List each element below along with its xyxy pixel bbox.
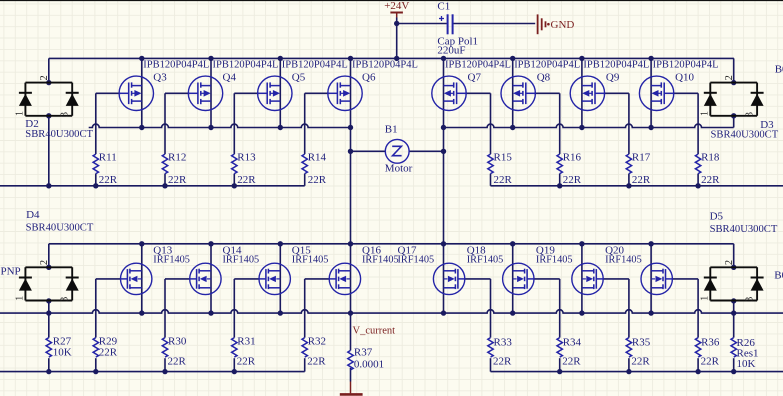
wire: C1 right plate to GND [453, 23, 535, 25]
pin numbers D3 [699, 75, 755, 117]
svg-text:IRF1405: IRF1405 [223, 255, 260, 266]
svg-text:Q3: Q3 [153, 71, 167, 83]
net label B0 (bottom right, cut) [774, 270, 783, 282]
svg-text:22R: 22R [701, 174, 720, 186]
wire: D4 bottom to source rail [48, 301, 50, 313]
svg-text:3: 3 [744, 297, 755, 302]
wire: Q4 drain-source vertical [210, 58, 212, 127]
svg-text:+24V: +24V [384, 0, 409, 12]
junction dots: bottom rails [46, 369, 736, 374]
net label B0 (top right, cut) [775, 64, 783, 76]
svg-text:SBR40U300CT: SBR40U300CT [26, 223, 94, 234]
net label V_current [353, 326, 396, 337]
junction dots: mid rails [46, 183, 701, 188]
svg-text:D5: D5 [710, 211, 724, 223]
wire: bottom-right rail [491, 371, 783, 373]
wire: Q19 gate to R35 [603, 279, 629, 372]
svg-text:IPB120P04P4L: IPB120P04P4L [653, 60, 719, 71]
svg-text:2: 2 [39, 260, 50, 265]
junction dots: D3 pins [731, 80, 736, 119]
svg-text:R13: R13 [237, 152, 256, 164]
svg-text:IPB120P04P4L: IPB120P04P4L [143, 60, 209, 71]
svg-text:R16: R16 [563, 152, 582, 164]
junction dots: D5 pins [731, 265, 736, 304]
wire: D3 bottom to source rail [733, 116, 735, 128]
resistor R18 22R [695, 152, 720, 187]
net label PNP (left edge, cut) [1, 266, 21, 278]
svg-text:22R: 22R [168, 355, 187, 367]
diode D5 SBR40U300CT (dual diode bridge) [704, 211, 778, 301]
diode D3 SBR40U300CT (dual diode bridge) [704, 83, 779, 141]
svg-text:22R: 22R [308, 174, 327, 186]
svg-text:V_current: V_current [353, 326, 396, 337]
wire: Q7 gate to R15 [465, 93, 491, 186]
svg-text:IPB120P04P4L: IPB120P04P4L [282, 60, 348, 71]
svg-text:IRF1405: IRF1405 [398, 255, 435, 266]
wire: R37 / V_current vertical [350, 313, 352, 381]
svg-text:B0: B0 [775, 64, 783, 76]
wire: Q20 drain-source vertical [650, 244, 652, 313]
wire: +24V to C1 left plate [397, 23, 447, 25]
svg-text:Q10: Q10 [675, 71, 694, 83]
wire: D3 pin2 stub [733, 58, 735, 82]
wire: D4 pin2 stub [48, 244, 50, 267]
wire: Q15 gate to R31 [234, 279, 259, 372]
pin numbers D5 [699, 260, 755, 302]
svg-text:22R: 22R [307, 355, 326, 367]
svg-text:Motor: Motor [385, 163, 413, 175]
resistor R37 0.0001 shunt [348, 346, 384, 370]
transistor Q18 IRF1405 (mirrored) [467, 245, 534, 295]
wire: bottom source rail [0, 310, 783, 313]
svg-text:R36: R36 [701, 337, 720, 349]
svg-text:IRF1405: IRF1405 [536, 255, 573, 266]
svg-text:R34: R34 [563, 337, 582, 349]
svg-text:B1: B1 [385, 124, 398, 136]
svg-text:22R: 22R [99, 174, 118, 186]
svg-text:B0: B0 [774, 270, 783, 282]
svg-text:IPB120P04P4L: IPB120P04P4L [445, 60, 511, 71]
svg-text:22R: 22R [237, 174, 256, 186]
svg-text:22R: 22R [494, 174, 513, 186]
svg-text:R12: R12 [168, 152, 186, 164]
transistor Q10 IPB120P04P4L (mirrored) [639, 60, 718, 111]
svg-text:SBR40U300CT: SBR40U300CT [711, 130, 779, 141]
svg-text:IPB120P04P4L: IPB120P04P4L [583, 60, 649, 71]
svg-text:Q5: Q5 [292, 71, 306, 83]
wire: top-right source rail [444, 124, 734, 127]
svg-text:R35: R35 [632, 337, 651, 349]
svg-text:0.0001: 0.0001 [354, 358, 384, 370]
svg-text:R14: R14 [308, 152, 327, 164]
resistor R14 22R [302, 152, 327, 187]
svg-text:Q8: Q8 [537, 71, 551, 83]
svg-text:IPB120P04P4L: IPB120P04P4L [514, 60, 580, 71]
svg-text:22R: 22R [99, 347, 118, 359]
svg-text:D4: D4 [26, 209, 40, 221]
junction dots: drain rail [139, 241, 654, 246]
wire: R27 vertical [48, 313, 50, 372]
power port +24V [384, 0, 409, 17]
svg-text:10K: 10K [53, 347, 72, 359]
junction dots: top source rails [139, 125, 654, 130]
transistor Q13 IRF1405 [121, 245, 190, 295]
resistor R36 22R [695, 337, 720, 368]
wire: motor right stub [409, 150, 443, 152]
svg-text:22R: 22R [168, 174, 187, 186]
wire: Q17 gate to R33 [465, 279, 491, 372]
wire: Q4 gate to R12 [165, 93, 190, 186]
transistor Q4 IPB120P04P4L [188, 60, 279, 111]
resistor R30 22R [162, 336, 187, 368]
svg-text:1: 1 [15, 111, 26, 116]
resistor R35 22R [626, 337, 651, 368]
transistor Q15 IRF1405 [259, 245, 328, 295]
svg-text:IRF1405: IRF1405 [605, 255, 642, 266]
wire: Q6 drain-source vertical [350, 58, 352, 313]
wire: Q9 drain-source vertical [581, 58, 583, 127]
transistor Q7 IPB120P04P4L (mirrored) [432, 60, 511, 111]
svg-text:3: 3 [60, 112, 71, 117]
wire: +24V top rail [49, 57, 734, 59]
resistor R11 22R [93, 152, 118, 187]
resistor R31 22R [232, 336, 256, 368]
wire: +24V vertical [396, 17, 398, 58]
wire: motor left stub [351, 150, 386, 152]
diode D2 SBR40U300CT (dual diode bridge) [19, 83, 94, 140]
wire: Q18 gate to R34 [534, 279, 560, 372]
svg-text:PNP: PNP [1, 266, 21, 278]
wire: Q3 gate to R11 [96, 93, 121, 186]
wire: Q6 gate to R14 [305, 93, 330, 186]
svg-text:R30: R30 [168, 336, 187, 348]
wire: mid-left rail [0, 185, 305, 187]
svg-text:R32: R32 [308, 336, 326, 348]
resistor R13 22R [232, 152, 257, 187]
svg-text:SBR40U300CT: SBR40U300CT [25, 129, 93, 140]
svg-text:22R: 22R [493, 355, 512, 367]
svg-text:Q7: Q7 [468, 71, 482, 83]
junction dots: bottom source rail [46, 310, 736, 315]
wire: Q14 drain-source vertical [210, 244, 212, 313]
svg-text:IRF1405: IRF1405 [362, 255, 399, 266]
resistor R34 22R [557, 337, 582, 368]
wire: Q8 gate to R16 [534, 93, 560, 186]
transistor Q3 IPB120P04P4L [119, 60, 210, 111]
wire: Q16 gate to R32 [305, 279, 330, 372]
svg-text:R17: R17 [632, 152, 651, 164]
transistor Q17 IRF1405 (mirrored) [398, 245, 465, 295]
transistor Q20 IRF1405 (mirrored) [605, 245, 672, 295]
svg-text:22R: 22R [631, 355, 650, 367]
svg-text:C1: C1 [437, 1, 450, 13]
svg-text:1: 1 [699, 296, 710, 301]
resistor R33 22R [488, 337, 513, 368]
wire: Q15 drain-source vertical [279, 244, 281, 313]
svg-text:R15: R15 [494, 152, 513, 164]
motor B1 [385, 124, 413, 175]
wire: mid-right rail [491, 185, 783, 187]
wire: Q10 drain-source vertical [650, 58, 652, 127]
wire: Q5 drain-source vertical [279, 58, 281, 127]
wire: R26 vertical [733, 313, 735, 372]
svg-text:22R: 22R [632, 174, 651, 186]
resistor R32 22R [302, 336, 326, 368]
pin numbers D2 [15, 75, 71, 117]
diode D4 SBR40U300CT (dual diode bridge) [19, 209, 94, 300]
capacitor C1 Cap Pol1 220uF [437, 1, 478, 57]
wire: Q3 drain-source vertical [141, 58, 143, 127]
pin numbers D4 [15, 260, 71, 302]
transistor Q9 IPB120P04P4L (mirrored) [570, 60, 649, 111]
resistor R16 22R [557, 152, 582, 187]
resistor R27 10K [46, 336, 72, 359]
resistor R29 22R [93, 336, 118, 359]
svg-text:3: 3 [60, 297, 71, 302]
wire: Q18 drain-source vertical [512, 244, 514, 313]
wire: Q8 drain-source vertical [512, 58, 514, 127]
wire: Q14 gate to R30 [165, 279, 190, 372]
wire: D2 bottom vertical to mid rail [48, 116, 50, 186]
svg-text:R37: R37 [354, 346, 373, 358]
junction dots: D4 pins [46, 265, 51, 304]
transistor Q8 IPB120P04P4L (mirrored) [501, 60, 580, 111]
svg-text:IRF1405: IRF1405 [292, 255, 329, 266]
transistor Q16 IRF1405 [329, 245, 398, 295]
svg-text:Q4: Q4 [223, 71, 237, 83]
resistor R12 22R [162, 152, 187, 187]
transistor Q6 IPB120P04P4L [327, 60, 418, 111]
junction dots: top rail [139, 56, 654, 61]
transistor Q5 IPB120P04P4L [257, 60, 348, 111]
svg-text:Q6: Q6 [362, 71, 376, 83]
svg-text:22R: 22R [562, 355, 581, 367]
svg-text:R18: R18 [701, 152, 720, 164]
svg-text:IRF1405: IRF1405 [467, 255, 504, 266]
wire: D5 pin2 stub [733, 244, 735, 267]
svg-text:22R: 22R [701, 355, 720, 367]
wire: Q19 drain-source vertical [581, 244, 583, 313]
svg-text:220uF: 220uF [437, 45, 465, 57]
wire: Q10 gate to R18 [672, 93, 698, 186]
wire: bottom drain rail [49, 243, 734, 245]
svg-text:22R: 22R [237, 355, 256, 367]
svg-text:R33: R33 [494, 337, 513, 349]
wire: Q5 gate to R13 [234, 93, 259, 186]
wire: D2 pin2 stub [48, 58, 50, 82]
svg-text:1: 1 [699, 111, 710, 116]
svg-text:R31: R31 [237, 336, 255, 348]
svg-text:3: 3 [744, 112, 755, 117]
svg-text:IPB120P04P4L: IPB120P04P4L [352, 60, 418, 71]
svg-text:2: 2 [39, 75, 50, 80]
wire: Q7 drain-source vertical [443, 58, 445, 313]
wire: top-left source rail [89, 124, 351, 127]
resistor R17 22R [626, 152, 651, 187]
resistor R26 Res1 10K [731, 337, 759, 370]
wire: D5 bottom to source rail [733, 301, 735, 313]
junction dot: +24V node [394, 21, 399, 26]
svg-text:2: 2 [724, 260, 735, 265]
junction dots: motor terminals [348, 149, 446, 154]
svg-text:Q9: Q9 [606, 71, 620, 83]
svg-text:22R: 22R [563, 174, 582, 186]
wire: Q13 gate to R29 [96, 279, 121, 372]
svg-text:2: 2 [724, 75, 735, 80]
svg-text:10K: 10K [737, 358, 756, 370]
resistor R15 22R [488, 152, 513, 187]
wire: Q9 gate to R17 [603, 93, 629, 186]
junction dots: D2 pins [46, 80, 51, 119]
svg-text:GND: GND [551, 19, 575, 31]
svg-text:IRF1405: IRF1405 [153, 255, 190, 266]
wire: Q13 drain-source vertical [141, 244, 143, 313]
svg-text:1: 1 [15, 296, 26, 301]
transistor Q14 IRF1405 [190, 245, 259, 295]
transistor Q19 IRF1405 (mirrored) [536, 245, 603, 295]
power ground GND [538, 14, 575, 34]
svg-text:R11: R11 [99, 152, 117, 164]
power port at bottom of R37 (cut) [340, 382, 363, 395]
svg-text:IPB120P04P4L: IPB120P04P4L [213, 60, 279, 71]
wire: Q20 gate to R36 [672, 279, 698, 372]
wire: bottom-left rail [0, 371, 305, 373]
svg-text:SBR40U300CT: SBR40U300CT [710, 224, 778, 235]
